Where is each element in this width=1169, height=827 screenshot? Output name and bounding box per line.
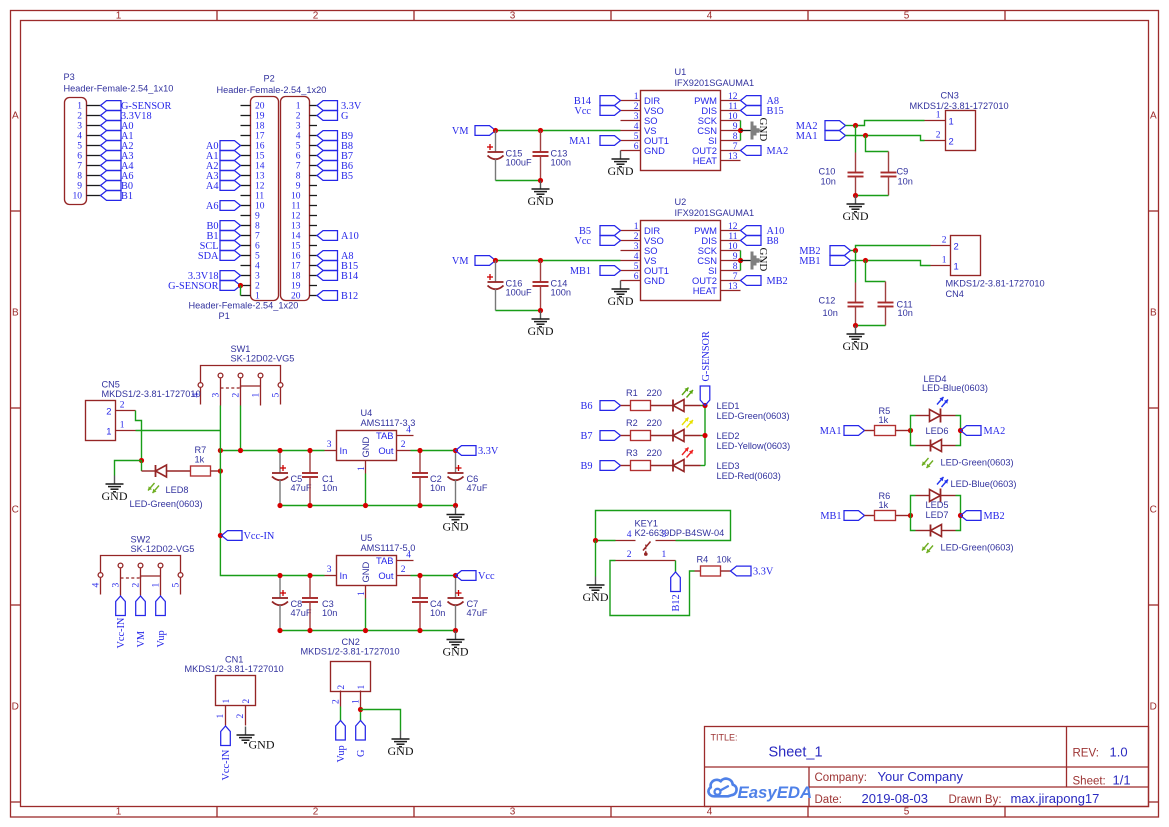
wire bbox=[411, 450, 456, 452]
svg-text:GND: GND bbox=[757, 118, 769, 142]
switch SW2 bbox=[92, 535, 195, 596]
svg-text:MB1: MB1 bbox=[820, 511, 841, 522]
svg-text:1.0: 1.0 bbox=[1110, 745, 1128, 760]
junction bbox=[702, 433, 707, 438]
svg-text:In: In bbox=[340, 445, 348, 456]
junction bbox=[493, 258, 498, 263]
svg-text:5: 5 bbox=[904, 11, 910, 22]
resistor R4 bbox=[695, 555, 732, 577]
svg-text:Header-Female-2.54_1x20: Header-Female-2.54_1x20 bbox=[217, 85, 327, 95]
svg-text:10: 10 bbox=[291, 192, 301, 202]
svg-text:2: 2 bbox=[634, 232, 639, 242]
capacitor C12 bbox=[819, 283, 864, 326]
net flag B9 bbox=[580, 461, 620, 472]
P1 pin 2 bbox=[296, 112, 317, 122]
svg-text:MKDS1/2-3.81-1727010: MKDS1/2-3.81-1727010 bbox=[946, 279, 1045, 289]
junction bbox=[493, 128, 498, 133]
junction bbox=[958, 428, 963, 433]
junction bbox=[307, 628, 312, 633]
P2 pin 13 bbox=[241, 172, 265, 182]
svg-text:10k: 10k bbox=[717, 555, 732, 565]
wire bbox=[866, 261, 886, 282]
svg-text:GND: GND bbox=[443, 520, 469, 534]
svg-text:220: 220 bbox=[647, 388, 662, 398]
net flag Vcc-IN bbox=[221, 726, 232, 781]
svg-text:10n: 10n bbox=[898, 308, 913, 318]
P1 pin 10 bbox=[291, 192, 317, 202]
net flag G-SENSOR bbox=[101, 101, 172, 112]
svg-text:GND: GND bbox=[388, 744, 414, 758]
svg-text:100n: 100n bbox=[551, 158, 571, 168]
P1 pin 15 bbox=[291, 242, 317, 252]
resistor R3 bbox=[621, 448, 674, 471]
net flag B8 bbox=[741, 236, 779, 247]
svg-text:GND: GND bbox=[583, 590, 609, 604]
svg-text:2: 2 bbox=[942, 236, 947, 246]
svg-text:Vcc-IN: Vcc-IN bbox=[244, 531, 275, 542]
P1 pin 18 bbox=[291, 272, 317, 282]
led LED7 (bottom) bbox=[916, 510, 1014, 553]
svg-text:1: 1 bbox=[352, 699, 362, 704]
connector CN2 bbox=[301, 637, 400, 707]
svg-text:GND: GND bbox=[608, 294, 634, 308]
svg-text:1: 1 bbox=[662, 550, 667, 560]
net flag Vup bbox=[336, 721, 347, 763]
svg-text:GND: GND bbox=[360, 561, 371, 582]
svg-text:10n: 10n bbox=[821, 177, 836, 187]
svg-text:220: 220 bbox=[647, 448, 662, 458]
svg-text:SDA: SDA bbox=[198, 251, 219, 262]
switch SW1 bbox=[192, 344, 295, 406]
svg-text:9: 9 bbox=[255, 212, 260, 222]
P1 pin 8 bbox=[296, 172, 317, 182]
svg-text:12: 12 bbox=[291, 212, 301, 222]
svg-text:9: 9 bbox=[733, 122, 738, 132]
svg-text:P2: P2 bbox=[264, 74, 275, 84]
P2 pin 5 bbox=[241, 252, 261, 262]
svg-text:P3: P3 bbox=[64, 72, 75, 82]
svg-text:B1: B1 bbox=[121, 191, 133, 202]
svg-text:GND: GND bbox=[757, 248, 769, 272]
svg-text:TITLE:: TITLE: bbox=[711, 733, 738, 743]
net flag MA1 bbox=[569, 136, 620, 147]
svg-text:10n: 10n bbox=[430, 483, 445, 493]
svg-text:In: In bbox=[340, 570, 348, 581]
net flag MA2 bbox=[741, 146, 789, 157]
wire bbox=[855, 126, 857, 153]
wire bbox=[240, 406, 242, 451]
connector CN4 bbox=[931, 236, 1045, 300]
capacitor C4 bbox=[412, 576, 445, 631]
svg-text:12: 12 bbox=[728, 222, 738, 232]
wire bbox=[136, 411, 142, 461]
net flag MB1 bbox=[820, 511, 864, 522]
svg-text:CN5: CN5 bbox=[102, 380, 120, 390]
P2 pin 10 bbox=[241, 202, 265, 212]
capacitor C13 bbox=[533, 131, 571, 181]
svg-text:2: 2 bbox=[296, 112, 301, 122]
svg-text:8: 8 bbox=[296, 172, 301, 182]
svg-text:B: B bbox=[1150, 308, 1157, 319]
net flag 3.3V18 bbox=[188, 271, 241, 282]
svg-text:Company:: Company: bbox=[815, 772, 867, 784]
net flag B5 bbox=[579, 226, 621, 237]
svg-text:MKDS1/2-3.81-1727010: MKDS1/2-3.81-1727010 bbox=[102, 389, 201, 399]
svg-text:GND: GND bbox=[644, 145, 665, 156]
svg-text:11: 11 bbox=[728, 102, 737, 112]
svg-text:10n: 10n bbox=[898, 177, 913, 187]
junction bbox=[538, 178, 543, 183]
P1 pin 4 bbox=[296, 132, 317, 142]
junction bbox=[238, 448, 243, 453]
net flag VM bbox=[452, 126, 496, 137]
svg-text:47uF: 47uF bbox=[291, 608, 312, 618]
svg-text:LED-Blue(0603): LED-Blue(0603) bbox=[922, 383, 988, 393]
svg-text:LED-Green(0603): LED-Green(0603) bbox=[941, 458, 1014, 468]
svg-text:HEAT: HEAT bbox=[693, 155, 718, 166]
svg-text:LED7: LED7 bbox=[926, 510, 949, 520]
svg-text:P1: P1 bbox=[219, 311, 230, 321]
wire bbox=[856, 195, 889, 197]
junction bbox=[417, 628, 422, 633]
svg-text:6: 6 bbox=[634, 272, 639, 282]
capacitor C14 bbox=[533, 261, 571, 311]
svg-text:B: B bbox=[12, 308, 19, 319]
net flag B12 bbox=[671, 572, 682, 612]
svg-text:B12: B12 bbox=[671, 594, 682, 611]
svg-text:7: 7 bbox=[77, 162, 82, 172]
svg-text:1k: 1k bbox=[879, 500, 889, 510]
net flag A6 bbox=[101, 171, 134, 182]
svg-text:IFX9201SGAUMA1: IFX9201SGAUMA1 bbox=[675, 78, 755, 88]
led LED2 bbox=[673, 418, 790, 452]
net flag B7 bbox=[317, 151, 353, 162]
svg-text:C: C bbox=[1150, 505, 1157, 516]
svg-text:D: D bbox=[1150, 702, 1157, 713]
svg-text:C12: C12 bbox=[819, 296, 836, 306]
svg-text:B15: B15 bbox=[767, 106, 784, 117]
capacitor C10 bbox=[819, 153, 864, 196]
svg-text:R1: R1 bbox=[626, 388, 638, 398]
net flag A6 bbox=[206, 201, 241, 212]
regulator U5 bbox=[325, 533, 416, 599]
led LED6 (bottom) bbox=[916, 426, 1014, 468]
net flag MA1 bbox=[820, 426, 865, 437]
net flag 3.3V bbox=[317, 101, 362, 112]
svg-text:K2-6639DP-B4SW-04: K2-6639DP-B4SW-04 bbox=[635, 528, 725, 538]
svg-text:REV:: REV: bbox=[1073, 748, 1099, 760]
svg-text:4: 4 bbox=[707, 807, 713, 818]
P3 pin 5 bbox=[77, 142, 100, 152]
resistor R5 bbox=[865, 406, 911, 436]
svg-text:1: 1 bbox=[77, 102, 82, 112]
signal ground bbox=[741, 118, 770, 142]
svg-text:Vcc: Vcc bbox=[574, 236, 591, 247]
junction bbox=[139, 458, 144, 463]
junction bbox=[853, 248, 858, 253]
svg-text:1: 1 bbox=[949, 116, 954, 127]
svg-text:Vup: Vup bbox=[336, 745, 347, 762]
junction bbox=[277, 573, 282, 578]
junction bbox=[277, 503, 282, 508]
wire bbox=[740, 251, 742, 271]
svg-text:16: 16 bbox=[255, 142, 265, 152]
P1 pin 11 bbox=[291, 202, 317, 212]
wire bbox=[141, 461, 143, 472]
svg-text:Out: Out bbox=[378, 445, 394, 456]
svg-text:IFX9201SGAUMA1: IFX9201SGAUMA1 bbox=[675, 208, 755, 218]
svg-text:B9: B9 bbox=[580, 461, 592, 472]
wire bbox=[851, 261, 931, 266]
ground bbox=[843, 196, 869, 224]
net flag MB2 bbox=[741, 276, 788, 287]
svg-text:3: 3 bbox=[634, 112, 639, 122]
svg-text:Sheet_1: Sheet_1 bbox=[769, 745, 823, 761]
connector P1 bbox=[189, 97, 310, 322]
svg-text:3: 3 bbox=[296, 122, 301, 132]
svg-text:8: 8 bbox=[255, 222, 260, 232]
net flag B1 bbox=[206, 231, 240, 242]
svg-text:7: 7 bbox=[255, 232, 260, 242]
junction bbox=[363, 628, 368, 633]
svg-text:20: 20 bbox=[255, 102, 265, 112]
svg-text:GND: GND bbox=[102, 489, 128, 503]
svg-text:10: 10 bbox=[728, 112, 738, 122]
net flag G bbox=[356, 721, 367, 758]
svg-text:2: 2 bbox=[313, 807, 319, 818]
svg-text:20: 20 bbox=[291, 292, 301, 302]
svg-text:B12: B12 bbox=[341, 291, 358, 302]
svg-text:LED8: LED8 bbox=[166, 485, 189, 495]
svg-text:MA1: MA1 bbox=[569, 136, 591, 147]
junction bbox=[307, 503, 312, 508]
svg-text:HEAT: HEAT bbox=[693, 285, 718, 296]
svg-text:GND: GND bbox=[644, 275, 665, 286]
P2 pin 4 bbox=[241, 262, 261, 272]
led LED8 bbox=[130, 465, 203, 509]
svg-text:9: 9 bbox=[733, 252, 738, 262]
P3 pin 4 bbox=[77, 132, 100, 142]
svg-text:2: 2 bbox=[313, 11, 319, 22]
svg-text:5: 5 bbox=[255, 252, 260, 262]
svg-text:17: 17 bbox=[291, 262, 301, 272]
net flag MA2 bbox=[796, 121, 846, 132]
junction bbox=[958, 513, 963, 518]
svg-text:13: 13 bbox=[255, 172, 265, 182]
svg-text:B8: B8 bbox=[767, 236, 779, 247]
junction bbox=[358, 707, 363, 712]
svg-text:A: A bbox=[12, 111, 19, 122]
svg-text:1: 1 bbox=[222, 699, 232, 704]
junction bbox=[218, 468, 223, 473]
svg-text:1/1: 1/1 bbox=[1113, 772, 1131, 787]
title block bbox=[705, 727, 1149, 807]
svg-text:CN2: CN2 bbox=[342, 637, 360, 647]
ground bbox=[237, 727, 275, 752]
wire bbox=[496, 180, 541, 182]
P2 pin 1 bbox=[241, 292, 261, 302]
svg-text:2: 2 bbox=[954, 241, 959, 252]
svg-text:5: 5 bbox=[634, 132, 639, 142]
P2 pin 20 bbox=[241, 102, 265, 112]
ground bbox=[608, 281, 634, 309]
svg-text:1: 1 bbox=[216, 714, 226, 719]
junction bbox=[738, 128, 743, 133]
svg-text:11: 11 bbox=[728, 232, 737, 242]
svg-text:R2: R2 bbox=[626, 418, 638, 428]
svg-text:Out: Out bbox=[378, 570, 394, 581]
junction bbox=[593, 538, 598, 543]
P1 pin 17 bbox=[291, 262, 317, 272]
svg-text:4: 4 bbox=[627, 530, 632, 540]
P1 pin 19 bbox=[291, 282, 317, 292]
svg-text:5: 5 bbox=[172, 583, 182, 588]
svg-text:2: 2 bbox=[401, 565, 406, 575]
svg-text:Vcc: Vcc bbox=[478, 571, 495, 582]
wire bbox=[675, 561, 677, 573]
svg-text:4: 4 bbox=[296, 132, 301, 142]
svg-text:MB1: MB1 bbox=[570, 266, 591, 277]
junction bbox=[417, 573, 422, 578]
svg-text:5: 5 bbox=[634, 262, 639, 272]
net flag Vcc bbox=[574, 236, 620, 247]
wire bbox=[240, 286, 242, 296]
svg-text:3: 3 bbox=[77, 122, 82, 132]
net flag A8 bbox=[317, 251, 354, 262]
capacitor C3 bbox=[302, 576, 337, 631]
connector P3 bbox=[64, 72, 174, 205]
wire bbox=[136, 430, 221, 432]
svg-text:15: 15 bbox=[291, 242, 301, 252]
net flag Vup bbox=[156, 596, 167, 648]
net flag A3 bbox=[101, 151, 134, 162]
ic U2 bbox=[621, 197, 755, 301]
svg-text:MA1: MA1 bbox=[820, 426, 842, 437]
svg-text:1: 1 bbox=[252, 393, 262, 398]
wire bbox=[855, 251, 857, 283]
junction bbox=[908, 513, 913, 518]
svg-text:MB2: MB2 bbox=[984, 511, 1005, 522]
svg-text:3: 3 bbox=[662, 530, 667, 540]
svg-text:8: 8 bbox=[733, 132, 738, 142]
P1 pin 5 bbox=[296, 142, 317, 152]
signal ground bbox=[741, 248, 770, 272]
svg-text:2: 2 bbox=[634, 102, 639, 112]
svg-text:U5: U5 bbox=[361, 533, 373, 543]
P1 pin 13 bbox=[291, 222, 317, 232]
svg-text:3: 3 bbox=[327, 565, 332, 575]
junction bbox=[307, 573, 312, 578]
led LED5 (top) bbox=[916, 477, 1017, 510]
svg-text:5: 5 bbox=[272, 393, 282, 398]
svg-text:EasyEDA: EasyEDA bbox=[738, 783, 813, 802]
net flag A0 bbox=[206, 141, 241, 152]
svg-text:3: 3 bbox=[634, 242, 639, 252]
P2 pin 3 bbox=[241, 272, 261, 282]
P2 pin 17 bbox=[241, 132, 265, 142]
net flag A1 bbox=[206, 151, 241, 162]
junction bbox=[363, 503, 368, 508]
net flag G-SENSOR bbox=[168, 281, 240, 292]
svg-text:1k: 1k bbox=[195, 455, 205, 465]
pushbutton KEY1 bbox=[616, 519, 725, 561]
svg-text:5: 5 bbox=[904, 807, 910, 818]
wire bbox=[219, 406, 221, 431]
net flag VM bbox=[136, 596, 147, 648]
junction bbox=[853, 323, 858, 328]
svg-text:GND: GND bbox=[528, 194, 554, 208]
P1 pin 3 bbox=[296, 122, 317, 132]
P1 pin 1 bbox=[296, 102, 317, 112]
svg-text:B5: B5 bbox=[341, 171, 353, 182]
svg-text:U1: U1 bbox=[675, 67, 687, 77]
net flag A1 bbox=[101, 131, 134, 142]
wire bbox=[360, 707, 362, 721]
svg-text:10: 10 bbox=[728, 242, 738, 252]
junction bbox=[453, 628, 458, 633]
wire bbox=[496, 310, 541, 312]
junction bbox=[218, 533, 223, 538]
net flag Vcc bbox=[456, 571, 496, 582]
wire bbox=[596, 511, 731, 541]
svg-text:220: 220 bbox=[647, 418, 662, 428]
P1 pin 6 bbox=[296, 152, 317, 162]
svg-text:LED-Green(0603): LED-Green(0603) bbox=[717, 411, 790, 421]
svg-text:12: 12 bbox=[728, 92, 738, 102]
wire bbox=[365, 599, 367, 631]
svg-text:LED6: LED6 bbox=[926, 426, 949, 436]
svg-text:max.jirapong17: max.jirapong17 bbox=[1011, 791, 1100, 806]
svg-text:LED-Yellow(0603): LED-Yellow(0603) bbox=[717, 441, 791, 451]
wire bbox=[220, 450, 324, 452]
net flag VM bbox=[452, 256, 496, 267]
net flag B15 bbox=[317, 261, 358, 272]
svg-text:3: 3 bbox=[112, 583, 122, 588]
net flag MA1 bbox=[796, 131, 846, 142]
wire bbox=[610, 561, 695, 616]
svg-text:1: 1 bbox=[120, 421, 125, 431]
net flag A10 bbox=[741, 226, 785, 237]
net flag B6 bbox=[317, 161, 353, 172]
svg-text:11: 11 bbox=[291, 202, 300, 212]
P2 pin 12 bbox=[241, 182, 265, 192]
svg-text:3: 3 bbox=[510, 11, 516, 22]
net flag B0 bbox=[101, 181, 134, 192]
svg-text:GND: GND bbox=[843, 209, 869, 223]
net flag B9 bbox=[317, 131, 353, 142]
svg-text:LED3: LED3 bbox=[717, 461, 740, 471]
wire bbox=[704, 406, 706, 466]
svg-text:Vcc: Vcc bbox=[574, 106, 591, 117]
P3 pin 6 bbox=[77, 152, 100, 162]
wire bbox=[115, 461, 142, 476]
svg-text:TAB: TAB bbox=[376, 555, 394, 566]
svg-text:19: 19 bbox=[255, 112, 265, 122]
ground bbox=[528, 311, 554, 339]
wire bbox=[701, 435, 706, 437]
svg-text:10: 10 bbox=[73, 192, 83, 202]
svg-text:LED1: LED1 bbox=[717, 401, 740, 411]
svg-text:G-SENSOR: G-SENSOR bbox=[168, 281, 218, 292]
svg-text:MA1: MA1 bbox=[796, 131, 818, 142]
wire bbox=[361, 710, 401, 731]
wire bbox=[496, 260, 621, 262]
svg-text:4: 4 bbox=[92, 583, 102, 588]
svg-text:4: 4 bbox=[255, 262, 260, 272]
svg-text:SK-12D02-VG5: SK-12D02-VG5 bbox=[231, 354, 295, 364]
P2 pin 2 bbox=[241, 282, 261, 292]
net flag MB2 bbox=[961, 511, 1005, 522]
